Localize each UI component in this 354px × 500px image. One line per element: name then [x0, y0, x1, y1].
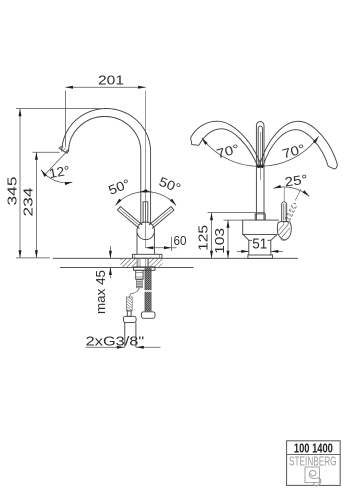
logo swirl [309, 471, 321, 486]
dimension 125 label [195, 225, 210, 251]
svg-text:345: 345 [5, 177, 20, 206]
spout outlet tip with aerator [59, 146, 68, 153]
faucet center axis line [145, 91, 147, 248]
svg-text:234: 234 [21, 188, 36, 217]
svg-text:100 1400: 100 1400 [294, 440, 333, 455]
dimension 234 line with arrows [35, 152, 37, 258]
side view pipe collar [255, 214, 265, 220]
dimension 201 line with arrows [65, 86, 145, 88]
svg-text:51: 51 [252, 236, 267, 252]
max 45 label [93, 270, 108, 314]
25 degree label [284, 171, 309, 189]
hose fitting block [136, 270, 143, 279]
dimension 51 label [252, 236, 267, 252]
logo square [305, 467, 319, 483]
dimension 345 line with arrows [19, 109, 21, 258]
50 degree arc left with arrows [115, 192, 151, 206]
spout silhouette swung left outer curve [191, 121, 262, 166]
svg-text:50°: 50° [106, 176, 132, 198]
12 degree label [48, 163, 71, 181]
dimension 51 line left with arrow [237, 250, 249, 252]
dimension 234 label [21, 188, 36, 217]
dimension 125 extension line [208, 212, 265, 214]
spout arch inner curve [69, 117, 141, 224]
dimension 201 extension line left (spout axis) [64, 91, 66, 148]
svg-text:201: 201 [98, 73, 124, 88]
faucet shank through counter hole [138, 258, 148, 267]
spout silhouette swung right inner curve [263, 130, 328, 167]
lever pivot housing [277, 221, 291, 240]
countertop bottom line [60, 266, 194, 268]
dimension 60 extension line [171, 237, 173, 251]
dimension 125 line with arrows [211, 213, 213, 259]
svg-text:25°: 25° [284, 171, 309, 189]
clamping washer under counter [134, 267, 156, 270]
70 degree arc left with arrows [202, 138, 265, 166]
dimension 103 line with arrows [227, 220, 229, 258]
dimension 234 extension line top [33, 151, 60, 153]
threaded mounting stud [144, 267, 152, 311]
12 degree arc with arrows [41, 170, 72, 183]
dimension 103 label [212, 228, 227, 254]
hose nut G3/8 [123, 316, 136, 322]
ball joint [137, 222, 155, 240]
hose threaded section upper [137, 279, 143, 288]
25 degree arc with arrows [273, 187, 309, 196]
svg-text:max 45: max 45 [93, 270, 108, 314]
spout arch outer curve [62, 109, 151, 224]
handle lever swung left 50 degrees [117, 207, 142, 229]
extension segment at counter level left [16, 257, 50, 259]
stud nut [141, 312, 155, 319]
side view spout pipe outer [256, 122, 264, 220]
25 degree extension line vertical [283, 187, 285, 201]
50 degree label left [106, 176, 132, 198]
svg-text:50°: 50° [157, 174, 183, 196]
svg-text:2xG3/8": 2xG3/8" [86, 333, 145, 348]
spout silhouette swung left end cap [191, 138, 199, 146]
title block separator line [287, 453, 341, 455]
2xG3/8 label [86, 333, 145, 348]
side view lever vertical [282, 202, 287, 222]
70 degree arc right with arrows [256, 136, 319, 166]
svg-text:70°: 70° [280, 141, 306, 161]
hose neck [127, 311, 131, 316]
dimension 345 extension line top [16, 108, 101, 110]
countertop hatch right block [149, 259, 163, 268]
svg-text:STEINBERG: STEINBERG [289, 455, 337, 469]
handle lever swung right 50 degrees [149, 207, 174, 229]
50 degree arc right with arrows [140, 192, 176, 206]
base plate [133, 254, 162, 258]
countertop hatch left block [121, 259, 138, 268]
article number 100 1400 [294, 440, 333, 455]
side view spout pipe inner [258, 126, 262, 168]
faucet body cylinder [137, 233, 154, 255]
title block box [287, 441, 341, 486]
side view spout pipe center line [259, 132, 261, 180]
hose braided section [126, 297, 132, 311]
side view lever tilted 25 degrees dashed [283, 203, 297, 226]
25 degree extension line tilted [295, 189, 301, 201]
70 degree label right [280, 141, 306, 161]
brand name STEINBERG [289, 455, 337, 469]
dimension 51 line right with arrow [271, 250, 283, 252]
max 45 dimension lower arrow [109, 267, 111, 278]
side view base plate [248, 255, 273, 258]
dimension 345 label [5, 177, 20, 206]
12 degree annotation leg line [45, 149, 69, 175]
dimension 60 line with arrows [146, 247, 177, 249]
svg-text:70°: 70° [215, 141, 241, 161]
handle lever vertical position [143, 202, 148, 223]
50 degree label right [157, 174, 183, 196]
max 45 dimension upper arrow [109, 246, 111, 258]
dimension 201 label [98, 73, 124, 88]
svg-text:103: 103 [212, 228, 227, 254]
svg-text:125: 125 [195, 225, 210, 251]
dimension 103 extension line [224, 219, 243, 221]
hose curve [129, 288, 139, 297]
svg-text:12°: 12° [48, 163, 71, 181]
hose tube [125, 322, 136, 347]
side view body block [243, 220, 279, 255]
svg-text:60: 60 [174, 233, 187, 248]
countertop top line [53, 257, 298, 259]
2xG3/8 dimension line with arrows [86, 346, 161, 348]
spout silhouette swung left inner curve [199, 129, 258, 167]
spout silhouette swung right end cap [328, 165, 337, 169]
70 degree label left [215, 141, 241, 161]
dimension 60 label [174, 233, 187, 248]
spout silhouette swung right outer curve [259, 121, 337, 166]
